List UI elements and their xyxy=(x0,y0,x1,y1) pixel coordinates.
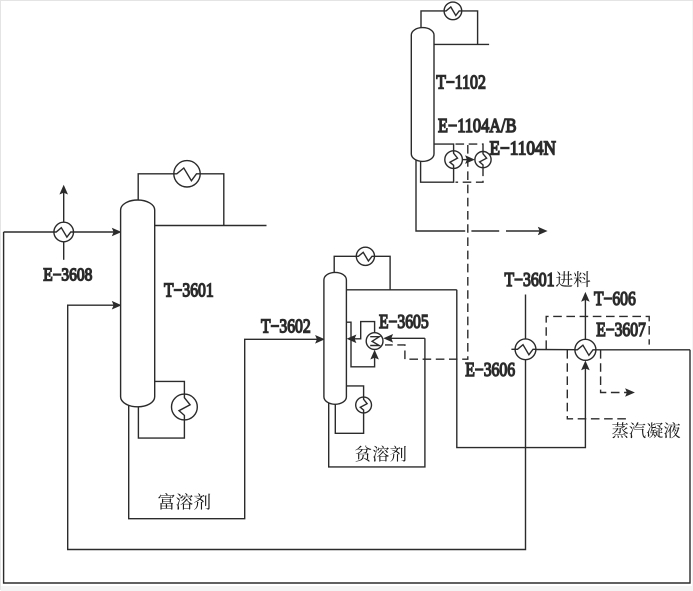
heat exchanger condenser of T-3601 xyxy=(174,161,200,187)
arrow into T-3601 top feed xyxy=(112,228,122,237)
dashed wire: condensate arrow xyxy=(601,350,627,393)
heat exchanger reboiler of T-3601 xyxy=(172,394,198,420)
dashed wire: E-1104N steam supply top xyxy=(456,144,484,152)
heat exchanger E-1104N xyxy=(475,152,491,168)
wire: E-3608 vertical utility line xyxy=(63,189,65,260)
wire: T-606 arrow up from E-3607 xyxy=(584,295,586,339)
heat exchanger condenser of T-1102 xyxy=(444,2,462,20)
wire: T-3601 overhead draw line xyxy=(155,225,267,227)
svg-text:E−1104N: E−1104N xyxy=(490,139,557,160)
wire: E-3607 to right edge xyxy=(596,349,690,351)
column T-3601 xyxy=(121,200,155,407)
wire: T-1102 overhead line xyxy=(434,43,489,45)
wire: lean solvent riser into E-3605 xyxy=(387,337,425,339)
heat exchanger E-3608 xyxy=(54,222,74,242)
svg-text:E−1104A/B: E−1104A/B xyxy=(438,116,517,137)
arrow up into E-3605 bottom xyxy=(370,350,379,360)
heat exchanger reboiler of T-3602 xyxy=(356,397,372,413)
column T-3602 xyxy=(324,272,347,404)
wire: T-3601 condenser loop xyxy=(138,174,174,202)
arrow up into E-3607 xyxy=(581,361,590,371)
heat exchanger E-3606 xyxy=(515,339,536,360)
wire: T-1102 bottoms product line xyxy=(416,156,465,231)
heat exchanger E-1104A/B reboiler xyxy=(445,151,463,169)
svg-text:T−3601: T−3601 xyxy=(505,270,555,291)
heat exchanger condenser of T-3602 xyxy=(356,247,374,265)
heat exchanger E-3605 xyxy=(366,333,383,350)
wire: lean-solvent outer loop (right edge, bottom, left edge) xyxy=(4,232,690,583)
svg-text:T−3602: T−3602 xyxy=(261,317,311,338)
wire: T-3602 overhead line to product drop xyxy=(346,289,457,291)
label lean solvent (贫溶剂) xyxy=(355,446,406,462)
svg-text:E−3606: E−3606 xyxy=(465,360,515,381)
arrow up from E-3608 xyxy=(59,185,68,195)
label rich solvent (富溶剂) xyxy=(158,493,210,510)
wire: T-3602 reboiler loop xyxy=(346,386,363,398)
svg-text:T−1102: T−1102 xyxy=(436,72,486,93)
wire: inlet through E-3608 into T-3601 xyxy=(4,231,118,233)
dashed wire: E-3607 box top/left/right xyxy=(546,316,649,349)
wire: E-3606 left stub xyxy=(511,348,515,350)
label steam condensate (蒸汽凝液) xyxy=(612,422,680,438)
wire: T-3601 reboiler loop xyxy=(155,381,185,396)
wire: E-3605 draw from T-3602 xyxy=(346,322,374,367)
arrow left into E-3605 xyxy=(383,334,393,343)
arrow left into T-3602 wall xyxy=(347,335,357,344)
svg-text:E−3605: E−3605 xyxy=(379,312,429,333)
dashed wire: E-1104N condensate bottom xyxy=(456,168,484,183)
wire: lean solvent from T-3602 bottoms xyxy=(329,338,425,467)
dashed wire: long drop to E-3605 xyxy=(385,145,468,359)
wire: rich solvent from T-3601 bottoms to T-3602 feed xyxy=(129,339,321,518)
wire: E-3606 to E-3607 xyxy=(536,349,575,351)
dashed wire: condensate drop left xyxy=(567,350,630,419)
arrow right T-1102 bottoms product xyxy=(538,227,548,236)
column T-1102 xyxy=(411,28,434,162)
wire: T-3602 distillate down to E-3607 xyxy=(457,290,586,448)
wire: T-3602 condenser loop xyxy=(334,256,356,274)
wire: E-3605 return into T-3602 xyxy=(350,322,375,339)
svg-text:E−3607: E−3607 xyxy=(596,320,646,341)
wire: T-3601 feed riser from E-3606 via bottom header xyxy=(68,295,526,550)
svg-text:T−606: T−606 xyxy=(594,289,636,310)
wire: arrow E-1104A/B to E-1104N xyxy=(462,159,471,161)
svg-text:E−3608: E−3608 xyxy=(43,265,92,285)
svg-text:T−3601: T−3601 xyxy=(164,281,214,302)
wire: E-1104A/B reboiler loop xyxy=(434,144,454,151)
wire: T-1102 condenser loop xyxy=(421,11,444,30)
heat exchanger E-3607 xyxy=(575,339,596,360)
arrow feed into T-3601 xyxy=(112,301,122,310)
arrow feed into T-3602 xyxy=(315,335,325,344)
